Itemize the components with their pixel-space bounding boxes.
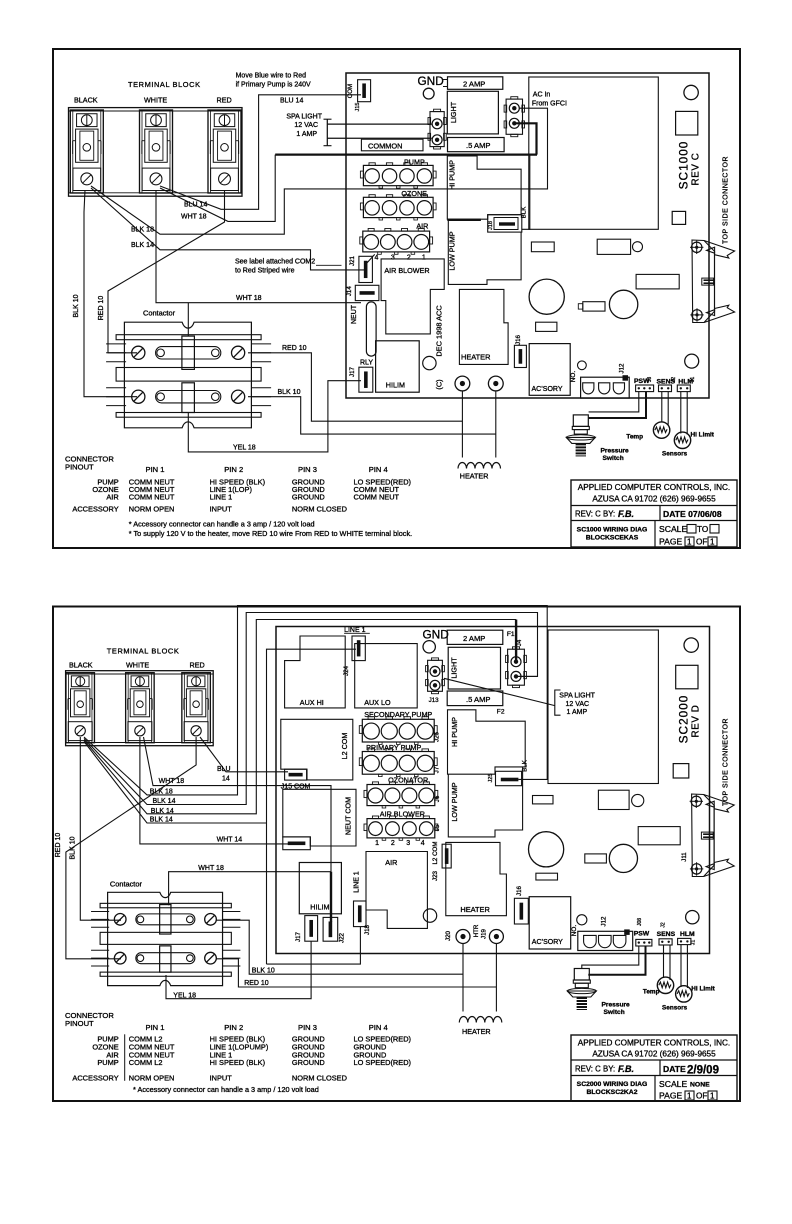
svg-text:L2 COM: L2 COM xyxy=(340,733,349,760)
svg-text:LIGHT: LIGHT xyxy=(450,657,459,679)
sensor Hi Limit 2 xyxy=(676,986,692,1002)
breaker RED xyxy=(208,110,241,193)
svg-text:J17: J17 xyxy=(349,366,356,377)
svg-text:BLACK: BLACK xyxy=(74,96,98,105)
svg-text:J11: J11 xyxy=(681,852,688,862)
svg-text:Sensors: Sensors xyxy=(662,451,688,458)
svg-text:to Red Striped wire: to Red Striped wire xyxy=(235,268,295,275)
wire heater right 2 xyxy=(495,944,497,1012)
svg-text:J20: J20 xyxy=(445,930,452,941)
connector J12 2 xyxy=(578,931,633,950)
box AIR BLOWER xyxy=(381,259,444,334)
svg-text:WHITE: WHITE xyxy=(144,96,167,105)
svg-text:J23: J23 xyxy=(432,870,439,881)
svg-text:Hi Limit: Hi Limit xyxy=(691,432,715,439)
svg-text:2/9/09: 2/9/09 xyxy=(687,1065,719,1077)
connector J18 2 xyxy=(354,901,367,927)
wire temp sensor 2 xyxy=(663,945,665,978)
box AUX LO xyxy=(355,644,418,708)
svg-text:BLOCKSCEKAS: BLOCKSCEKAS xyxy=(586,535,639,542)
svg-text:SC1000 WIRING DIAG: SC1000 WIRING DIAG xyxy=(577,527,648,534)
part rect 2 xyxy=(597,239,630,254)
svg-text:J16: J16 xyxy=(516,885,523,896)
svg-text:OF: OF xyxy=(696,1092,707,1101)
svg-text:NORM OPEN: NORM OPEN xyxy=(129,1074,175,1083)
wire BLK 14 bus B xyxy=(84,613,538,805)
connector J5 xyxy=(367,819,435,838)
svg-text:Pressure: Pressure xyxy=(602,1002,631,1009)
bracket spa light xyxy=(324,118,332,120)
connector J24 xyxy=(352,636,365,661)
svg-text:RED: RED xyxy=(190,660,205,669)
wire spa light 1 xyxy=(327,123,431,125)
contactor xyxy=(124,322,251,428)
wire YEL 18 2 xyxy=(166,941,311,999)
svg-text:TOP SIDE CONNECTOR: TOP SIDE CONNECTOR xyxy=(723,156,730,244)
svg-text:ACCESSORY: ACCESSORY xyxy=(72,505,118,514)
hole GND 2 xyxy=(423,641,435,653)
wire WHT 18 to COMMON xyxy=(160,155,275,222)
svg-text:14: 14 xyxy=(222,776,230,783)
svg-text:BLK 14: BLK 14 xyxy=(131,242,154,249)
svg-text:AIR BLOWER: AIR BLOWER xyxy=(380,809,425,818)
svg-text:BLK 18: BLK 18 xyxy=(150,789,173,796)
svg-text:J8: J8 xyxy=(647,377,653,383)
heater coil xyxy=(458,463,501,469)
pad square 1 xyxy=(676,111,698,135)
svg-text:RED 10: RED 10 xyxy=(55,833,62,858)
svg-text:12 VAC: 12 VAC xyxy=(294,122,318,129)
relay HILIM 2 xyxy=(299,863,341,914)
connector J22 xyxy=(323,917,338,941)
part rect 3b xyxy=(638,827,680,845)
svg-text:COMM L2: COMM L2 xyxy=(129,1058,163,1067)
svg-text:BLK 10: BLK 10 xyxy=(252,967,275,974)
svg-text:Contactor: Contactor xyxy=(110,880,143,889)
svg-text:PIN 2: PIN 2 xyxy=(224,1023,243,1032)
svg-text:1: 1 xyxy=(710,538,715,547)
svg-text:COMM NEUT: COMM NEUT xyxy=(354,493,400,502)
breaker BLACK 2 xyxy=(66,673,95,743)
svg-text:AUX HI: AUX HI xyxy=(300,698,324,707)
heater coil 2 xyxy=(459,1017,502,1023)
svg-text:GROUND: GROUND xyxy=(292,493,325,502)
svg-text:BY:: BY: xyxy=(603,1065,615,1074)
connector J4 xyxy=(508,649,525,685)
svg-text:J7: J7 xyxy=(434,766,441,773)
wire hi limit sensor 2 xyxy=(680,945,682,987)
svg-text:SPA LIGHT: SPA LIGHT xyxy=(559,693,595,700)
wire heater left xyxy=(461,391,463,458)
wire WHT 18 to J14 NEUT xyxy=(156,190,361,303)
svg-text:J18: J18 xyxy=(364,924,371,935)
svg-text:AIR: AIR xyxy=(385,858,397,867)
svg-text:APPLIED COMPUTER CONTROLS, INC: APPLIED COMPUTER CONTROLS, INC. xyxy=(578,483,730,492)
svg-text:* Accessory connector can hand: * Accessory connector can handle a 3 amp… xyxy=(133,1085,319,1094)
wire RED 10 to contactor xyxy=(108,190,225,353)
svg-text:BLK 14: BLK 14 xyxy=(153,798,176,805)
part rect 4 xyxy=(583,302,605,311)
svg-text:COMM NEUT: COMM NEUT xyxy=(129,493,175,502)
connector J6 xyxy=(367,785,435,806)
wire RED 10 left 2 xyxy=(66,737,196,959)
connector AC In GFCI xyxy=(506,99,522,134)
svg-text:1 AMP: 1 AMP xyxy=(567,709,588,716)
relay LIGHT xyxy=(447,91,498,134)
svg-text:WHT 18: WHT 18 xyxy=(181,214,207,221)
svg-text:PIN 4: PIN 4 xyxy=(369,1023,388,1032)
wire PSW 1 xyxy=(589,392,639,412)
svg-text:2: 2 xyxy=(407,254,411,261)
svg-text:SCALE: SCALE xyxy=(659,1079,687,1089)
svg-text:4: 4 xyxy=(375,254,379,261)
svg-text:3: 3 xyxy=(391,254,395,261)
svg-text:J25: J25 xyxy=(488,773,494,782)
svg-text:PINOUT: PINOUT xyxy=(65,1019,94,1028)
wire LINE1 to J18 xyxy=(267,927,361,965)
pressure switch 2 xyxy=(574,969,589,981)
svg-text:J2: J2 xyxy=(671,377,677,383)
svg-text:Temp: Temp xyxy=(626,433,643,440)
svg-text:2: 2 xyxy=(391,840,395,847)
hole bottom right xyxy=(685,354,699,368)
svg-text:J6: J6 xyxy=(434,795,441,802)
svg-text:PSW: PSW xyxy=(634,930,650,937)
svg-text:BLU 14: BLU 14 xyxy=(184,201,207,208)
connector J13 2 xyxy=(428,660,443,691)
svg-text:HILIM: HILIM xyxy=(310,903,329,912)
svg-text:PIN 4: PIN 4 xyxy=(369,465,388,474)
part rect 3 xyxy=(636,274,679,289)
box COMMON xyxy=(361,139,423,151)
connector J13 light xyxy=(430,112,444,147)
wire PSW 2 xyxy=(589,392,646,418)
connector J7 xyxy=(362,752,434,775)
svg-text:J24: J24 xyxy=(343,665,350,676)
svg-text:4: 4 xyxy=(421,840,425,847)
relay LIGHT 2 xyxy=(448,647,500,689)
svg-text:AZUSA CA 91702 (626) 969-9655: AZUSA CA 91702 (626) 969-9655 xyxy=(592,1050,716,1059)
svg-text:DATE: DATE xyxy=(663,1064,686,1074)
svg-text:F2: F2 xyxy=(497,708,505,715)
title block SC2000 xyxy=(571,1035,737,1101)
fuse 2 AMP xyxy=(448,77,503,90)
svg-text:* To supply 120 V to the heate: * To supply 120 V to the heater, move RE… xyxy=(129,529,412,538)
svg-text:3: 3 xyxy=(406,840,410,847)
breaker RED 2 xyxy=(182,673,211,743)
svg-text:J19: J19 xyxy=(480,928,487,939)
connector J18 xyxy=(488,215,522,232)
svg-text:HI SPEED (BLK): HI SPEED (BLK) xyxy=(210,1058,265,1067)
terminal block body xyxy=(69,108,243,197)
svg-text:L2 COM: L2 COM xyxy=(432,841,439,864)
svg-text:J17: J17 xyxy=(295,931,302,942)
svg-text:PIN 1: PIN 1 xyxy=(146,465,165,474)
hole big right 2 xyxy=(609,844,637,872)
table bracket line xyxy=(124,1034,126,1081)
svg-text:COMMON: COMMON xyxy=(368,141,403,150)
svg-text:J4: J4 xyxy=(516,639,523,646)
svg-text:F1: F1 xyxy=(507,631,515,638)
svg-text:PAGE: PAGE xyxy=(659,537,683,547)
relay HILIM xyxy=(376,341,420,392)
pad square 2 xyxy=(672,211,685,224)
low pump top thick line xyxy=(447,219,481,221)
hole big right xyxy=(609,290,637,318)
pressure switch xyxy=(573,415,588,427)
title block SC1000 xyxy=(571,480,737,547)
svg-text:AIR BLOWER: AIR BLOWER xyxy=(384,266,429,275)
svg-text:AC’SORY: AC’SORY xyxy=(532,386,563,393)
svg-text:GROUND: GROUND xyxy=(292,1058,325,1067)
wire RED 10 right xyxy=(248,353,462,421)
part rect 1 xyxy=(531,242,554,252)
svg-text:HI PUMP: HI PUMP xyxy=(448,160,457,190)
svg-text:LOW PUMP: LOW PUMP xyxy=(450,782,459,821)
sensor Temp xyxy=(653,422,669,438)
svg-text:Temp: Temp xyxy=(643,988,660,995)
box AIR 2 xyxy=(366,852,427,929)
wire AC bottom pin loop xyxy=(516,123,537,154)
wire BLK 18 to AC-in xyxy=(91,108,548,234)
box AUX HI xyxy=(285,636,346,708)
svg-text:HEATER: HEATER xyxy=(462,1027,491,1036)
wire BLK 10 to contactor xyxy=(84,190,137,397)
svg-text:NEUT: NEUT xyxy=(351,304,358,324)
svg-text:BLOCKSC2KA2: BLOCKSC2KA2 xyxy=(587,1089,638,1096)
breaker WHITE 2 xyxy=(126,673,154,743)
part rect 4b xyxy=(585,854,607,863)
connector COM J15 xyxy=(358,80,371,102)
PCB outline SC1000 xyxy=(346,73,709,398)
svg-text:ACCESSORY: ACCESSORY xyxy=(72,1074,118,1083)
box HEATER 2 xyxy=(446,842,507,915)
svg-text:See label attached COM2: See label attached COM2 xyxy=(235,259,315,266)
svg-text:OZONATOR: OZONATOR xyxy=(388,776,428,785)
wire BLK 10 right 2 xyxy=(216,920,463,974)
svg-text:WHT 18: WHT 18 xyxy=(198,865,224,872)
svg-text:NORM CLOSED: NORM CLOSED xyxy=(292,1074,347,1083)
connector J25 xyxy=(496,771,522,785)
svg-text:PIN 3: PIN 3 xyxy=(298,1023,317,1032)
svg-text:WHT 14: WHT 14 xyxy=(217,836,243,843)
svg-text:.5 AMP: .5 AMP xyxy=(466,695,490,704)
box L2 COM xyxy=(281,719,353,780)
svg-text:J1: J1 xyxy=(690,377,696,383)
edge connector top side xyxy=(692,240,715,323)
relay HI PUMP xyxy=(447,156,521,219)
svg-text:REV D: REV D xyxy=(691,705,702,738)
fuse NEUT capsule xyxy=(366,302,376,356)
connector J16 2 xyxy=(514,898,528,924)
svg-text:BLK 10: BLK 10 xyxy=(278,389,301,396)
part rect 2b xyxy=(598,790,629,809)
svg-text:PAGE: PAGE xyxy=(659,1091,683,1101)
svg-text:SENS: SENS xyxy=(657,931,676,938)
wire BLK 14 LINE1 xyxy=(84,742,267,824)
svg-text:J14: J14 xyxy=(346,286,353,297)
svg-text:TOP SIDE CONNECTOR: TOP SIDE CONNECTOR xyxy=(723,718,730,806)
svg-text:SC2000: SC2000 xyxy=(677,695,691,744)
svg-text:2 AMP: 2 AMP xyxy=(463,79,485,88)
svg-text:REV C: REV C xyxy=(691,153,702,186)
svg-text:NO.: NO. xyxy=(570,371,577,383)
svg-text:J26: J26 xyxy=(434,731,441,742)
fuse .5 AMP xyxy=(448,138,505,152)
svg-text:LO SPEED(RED): LO SPEED(RED) xyxy=(354,1058,412,1067)
svg-text:(C): (C) xyxy=(435,379,444,389)
svg-text:REV: C: REV: C xyxy=(575,1065,601,1074)
svg-text:J12: J12 xyxy=(601,916,608,927)
hole NO 2 xyxy=(577,915,587,925)
svg-text:APPLIED COMPUTER CONTROLS, INC: APPLIED COMPUTER CONTROLS, INC. xyxy=(578,1038,730,1047)
svg-text:AUX LO: AUX LO xyxy=(364,698,391,707)
wire BLU 14 to J15 COM 2 xyxy=(200,737,288,772)
relay HI PUMP 2 xyxy=(448,710,526,774)
svg-text:1: 1 xyxy=(687,538,692,547)
relay LOW PUMP 2 xyxy=(448,767,522,837)
wire PSW 1 b xyxy=(582,946,639,969)
svg-text:1 AMP: 1 AMP xyxy=(296,131,317,138)
part rect 5 xyxy=(536,322,557,331)
svg-text:Pressure: Pressure xyxy=(601,448,630,455)
wire spa light 2 xyxy=(327,137,431,139)
svg-text:RLY: RLY xyxy=(360,359,373,366)
svg-text:REV: C: REV: C xyxy=(575,510,601,519)
hole top right xyxy=(684,85,698,99)
wire WHT 18 bottom xyxy=(144,737,332,872)
wire J4 bottom loop xyxy=(517,675,538,677)
svg-text:NORM OPEN: NORM OPEN xyxy=(129,505,175,514)
svg-text:J22: J22 xyxy=(339,932,346,943)
wire temp sensor xyxy=(661,392,663,423)
box ACSORY 2 xyxy=(529,897,571,949)
pad square 2b xyxy=(673,764,689,778)
svg-text:AZUSA CA 91702 (626) 969-9655: AZUSA CA 91702 (626) 969-9655 xyxy=(592,495,716,504)
svg-text:J13: J13 xyxy=(429,697,440,704)
svg-text:TERMINAL BLOCK: TERMINAL BLOCK xyxy=(107,646,180,655)
hole small xyxy=(423,356,436,369)
svg-text:NONE: NONE xyxy=(690,1082,710,1089)
relay LOW PUMP xyxy=(448,220,521,284)
svg-text:SC2000 WIRING DIAG: SC2000 WIRING DIAG xyxy=(577,1081,648,1088)
svg-text:SCALE: SCALE xyxy=(659,524,687,534)
svg-text:RED 10: RED 10 xyxy=(98,296,105,321)
wire BLK 14 bus C thick xyxy=(84,620,516,814)
connector J17 2 xyxy=(305,916,318,942)
svg-text:12 VAC: 12 VAC xyxy=(566,701,590,708)
svg-text:HEATER: HEATER xyxy=(460,471,489,480)
terminal J20 2 xyxy=(456,930,470,944)
hole part xyxy=(633,242,643,252)
svg-text:J18: J18 xyxy=(488,221,494,230)
svg-text:LIGHT: LIGHT xyxy=(449,101,458,123)
svg-text:SC1000: SC1000 xyxy=(677,141,691,190)
svg-text:NEUT COM: NEUT COM xyxy=(344,797,353,835)
svg-text:BLK 14: BLK 14 xyxy=(150,817,173,824)
connector J14 xyxy=(355,285,379,300)
svg-text:PIN 2: PIN 2 xyxy=(224,465,243,474)
svg-text:HLM: HLM xyxy=(680,931,695,938)
svg-text:J2: J2 xyxy=(661,922,667,928)
wire BLK 10 right xyxy=(248,397,496,434)
box HEATER xyxy=(459,289,508,364)
svg-text:YEL 18: YEL 18 xyxy=(173,992,196,999)
wire pin4 to J21 xyxy=(367,254,375,262)
svg-text:J15: J15 xyxy=(355,102,361,111)
connector J15 COM xyxy=(285,769,307,780)
part rect 1b xyxy=(533,796,554,804)
svg-text:BLK 14: BLK 14 xyxy=(151,808,174,815)
svg-text:J21: J21 xyxy=(349,255,356,266)
hole NO xyxy=(578,361,587,370)
svg-text:2 AMP: 2 AMP xyxy=(463,634,485,643)
hole GND xyxy=(423,88,434,99)
wire contactor coil top xyxy=(187,303,189,336)
box NEUT COM xyxy=(283,789,356,846)
svg-text:From GFCI: From GFCI xyxy=(532,101,567,108)
hole top right 2 xyxy=(684,638,698,652)
svg-text:1: 1 xyxy=(687,1092,692,1101)
breaker WHITE xyxy=(140,110,173,193)
svg-text:LINE 1: LINE 1 xyxy=(210,493,233,502)
wire heater left 2 xyxy=(462,944,464,1012)
wire PSW 2 b xyxy=(588,946,645,975)
svg-text:YEL 18: YEL 18 xyxy=(233,444,256,451)
svg-text:1: 1 xyxy=(422,254,426,261)
svg-text:INPUT: INPUT xyxy=(210,505,233,514)
svg-text:Switch: Switch xyxy=(604,1009,625,1016)
svg-text:COM: COM xyxy=(347,84,354,98)
wire RED 10 right 2 xyxy=(216,959,496,987)
box ACSORY xyxy=(529,344,570,396)
svg-text:Contactor: Contactor xyxy=(143,309,176,318)
svg-text:1: 1 xyxy=(375,840,379,847)
svg-text:AC’SORY: AC’SORY xyxy=(532,939,563,946)
pad square 1b xyxy=(676,665,698,689)
svg-text:Move Blue wire to Red: Move Blue wire to Red xyxy=(236,73,307,80)
hole big left 2 xyxy=(529,832,564,867)
fuse 2 AMP 2 xyxy=(447,630,503,644)
wire hi limit sensor xyxy=(680,392,682,434)
svg-text:BLK 10: BLK 10 xyxy=(73,294,80,317)
hole small 2 xyxy=(423,909,436,922)
terminal block body 2 xyxy=(66,671,214,746)
svg-text:AIR: AIR xyxy=(106,493,118,502)
svg-text:INPUT: INPUT xyxy=(210,1074,233,1083)
svg-text:J12: J12 xyxy=(619,363,626,374)
svg-text:* Accessory connector can hand: * Accessory connector can handle a 3 amp… xyxy=(129,520,315,529)
svg-text:BLACK: BLACK xyxy=(69,660,93,669)
svg-text:PIN 1: PIN 1 xyxy=(146,1023,165,1032)
hole part 2 xyxy=(632,794,644,806)
svg-text:F.B.: F.B. xyxy=(618,509,634,519)
svg-text:GND: GND xyxy=(423,628,449,642)
svg-text:Hi Limit: Hi Limit xyxy=(691,985,715,992)
svg-text:HEATER: HEATER xyxy=(460,905,489,914)
wire WHT 14 xyxy=(140,737,288,844)
svg-text:J5: J5 xyxy=(434,824,441,831)
terminal J20 xyxy=(455,376,470,391)
svg-text:AC In: AC In xyxy=(533,92,551,99)
svg-text:BLU: BLU xyxy=(217,766,231,773)
wire LINE 1 net xyxy=(267,649,357,964)
svg-text:if Primary Pump is 240V: if Primary Pump is 240V xyxy=(236,82,311,89)
PCB outline SC2000 xyxy=(276,627,710,954)
sensor Hi Limit xyxy=(674,432,690,448)
sensor Temp 2 xyxy=(657,977,673,993)
hole big left xyxy=(529,279,564,314)
